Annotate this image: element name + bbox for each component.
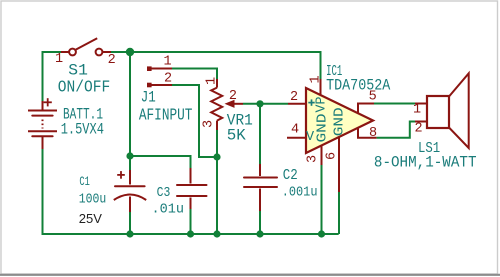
svg-text:J1: J1 — [141, 89, 156, 107]
svg-text:1: 1 — [55, 52, 63, 67]
pin 6 IC1 — [338, 137, 340, 192]
junction wiper node — [256, 100, 263, 107]
wire switch to pin1 IC — [111, 52, 321, 79]
svg-text:1: 1 — [164, 54, 172, 69]
wire wiper to IC pin2 — [243, 103, 288, 105]
wire battery bottom + ground rail — [43, 149, 339, 234]
svg-text:1: 1 — [413, 103, 421, 118]
junction dots ground rail — [126, 230, 133, 237]
capacitor C2 — [244, 164, 277, 234]
svg-text:C1: C1 — [79, 174, 90, 189]
junction C1 top — [126, 152, 133, 159]
svg-text:8-OHM,1-WATT: 8-OHM,1-WATT — [374, 154, 477, 172]
junction top rail — [126, 48, 134, 56]
svg-text:2: 2 — [164, 71, 172, 86]
wire wiper node down to C2 — [259, 104, 261, 164]
svg-text:8: 8 — [369, 126, 377, 141]
svg-text:3: 3 — [306, 155, 321, 163]
wire pin6 to ground rail — [338, 192, 340, 234]
op-amp IC1 TDA7052A — [306, 88, 373, 153]
pin 3 IC1 — [321, 146, 323, 165]
capacitor C1 — [114, 156, 146, 234]
junction VR1 ground node — [213, 153, 220, 160]
battery BATT.1 — [28, 101, 57, 149]
svg-text:2: 2 — [108, 53, 116, 68]
svg-text:.001u: .001u — [282, 185, 318, 201]
svg-text:.01u: .01u — [152, 202, 185, 218]
capacitor C3 — [177, 168, 207, 234]
wire supply branch down to C1 — [129, 52, 131, 156]
pin 5 IC1 — [358, 104, 374, 114]
switch S1 — [61, 38, 111, 55]
svg-text:4: 4 — [291, 123, 299, 138]
plus sign C1 — [117, 171, 125, 179]
svg-text:1.5VX4: 1.5VX4 — [61, 121, 104, 139]
wire row C1 to C3 — [130, 156, 191, 168]
svg-text:2: 2 — [229, 89, 237, 104]
pin 1 IC1 — [320, 79, 322, 95]
plus sign battery — [44, 98, 52, 106]
svg-text:5K: 5K — [227, 126, 247, 144]
svg-text:2: 2 — [414, 121, 422, 136]
svg-text:100u: 100u — [79, 193, 107, 208]
wire pin5 to LS1 pin1 — [374, 103, 415, 105]
wire junction to ground rail — [216, 157, 218, 234]
svg-text:C3: C3 — [157, 185, 171, 201]
wire pin3 to ground rail — [321, 165, 323, 234]
svg-text:V: V — [306, 130, 315, 145]
connector J1 — [147, 66, 172, 87]
svg-text:1: 1 — [309, 75, 324, 83]
svg-text:VP: VP — [315, 97, 330, 113]
potentiometer VR1 — [211, 79, 243, 130]
svg-text:TDA7052A: TDA7052A — [326, 77, 391, 95]
pin 2 IC1 — [288, 103, 306, 105]
svg-text:GND: GND — [316, 114, 331, 143]
wire VR1 pin3 down — [216, 130, 218, 157]
wire pin8 to LS1 pin2 — [377, 122, 415, 138]
svg-text:2: 2 — [290, 90, 298, 105]
svg-text:AFINPUT: AFINPUT — [139, 105, 193, 124]
svg-text:C2: C2 — [283, 168, 298, 184]
svg-text:GND: GND — [332, 107, 347, 136]
wire battery top to switch — [43, 52, 62, 110]
svg-text:6: 6 — [325, 152, 340, 160]
pin 8 IC1 — [358, 128, 377, 138]
wire J1 pin2 to VR1 bottom junction — [172, 85, 217, 157]
svg-text:3: 3 — [202, 120, 217, 128]
svg-text:ON/OFF: ON/OFF — [58, 78, 111, 97]
svg-text:1: 1 — [205, 77, 220, 85]
plus sign IC1 — [308, 99, 314, 105]
pin 4 IC1 — [287, 137, 306, 139]
svg-text:25V: 25V — [79, 211, 102, 226]
speaker LS1 — [415, 73, 469, 148]
wire J1 pin1 to VR1 top — [172, 69, 217, 80]
